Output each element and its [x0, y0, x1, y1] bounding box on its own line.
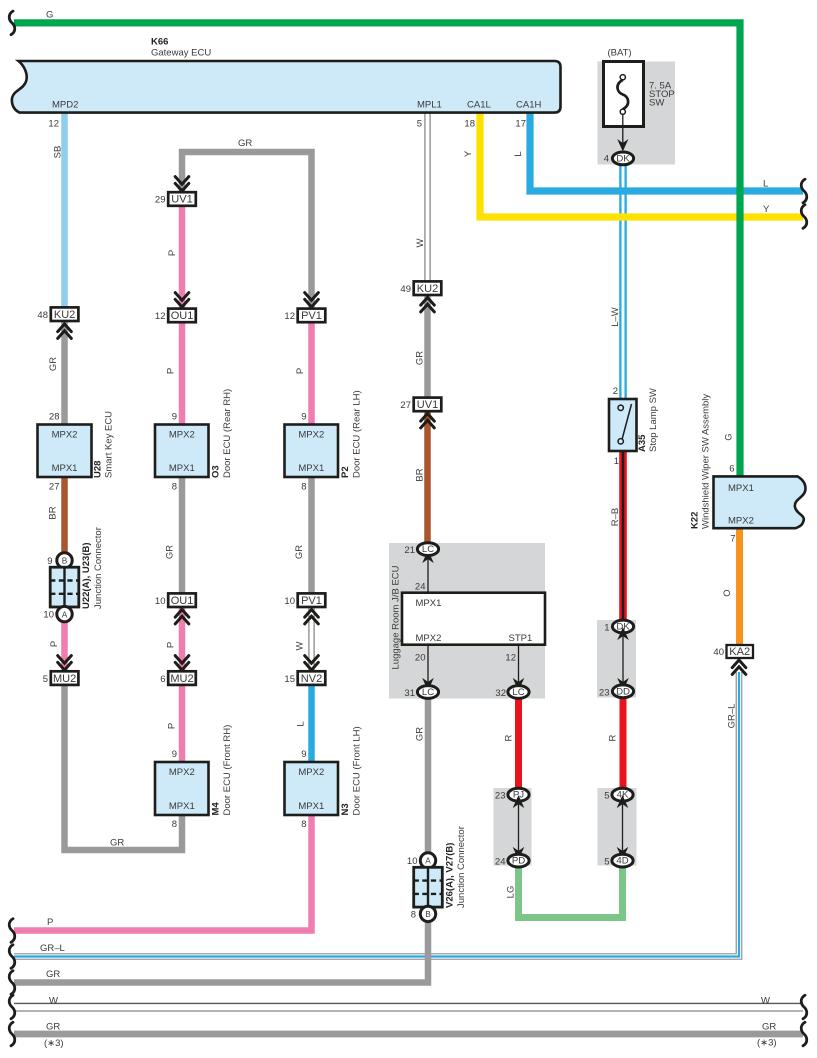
wire W PV1 to NV2	[309, 606, 314, 672]
wire GR LC 31 to junction V26 A	[425, 698, 432, 856]
svg-text:MPX1: MPX1	[416, 598, 442, 609]
door ECU rear LH P2	[285, 425, 339, 478]
svg-text:OU1: OU1	[171, 310, 194, 322]
connector oval LC 32	[508, 686, 529, 699]
svg-text:GR: GR	[165, 545, 176, 559]
svg-text:9: 9	[301, 749, 306, 760]
break squiggle GR bottom2 left	[9, 1022, 15, 1046]
svg-text:GR: GR	[238, 138, 252, 149]
connector oval 4D 5	[612, 854, 633, 867]
svg-text:7: 7	[730, 534, 735, 545]
connector box KU2 49	[414, 281, 442, 295]
svg-text:U22(A), U23(B): U22(A), U23(B)	[81, 542, 92, 609]
svg-text:4D: 4D	[616, 856, 628, 867]
wire W bottom bus	[14, 1003, 803, 1011]
svg-text:UV1: UV1	[171, 194, 192, 206]
svg-text:BR: BR	[48, 506, 59, 519]
svg-text:L: L	[296, 721, 307, 726]
svg-text:CA1L: CA1L	[467, 100, 491, 111]
arrow down 4D	[617, 847, 629, 860]
svg-text:10: 10	[155, 596, 166, 607]
svg-text:(BAT): (BAT)	[608, 48, 632, 59]
arrow down DD	[617, 678, 629, 691]
svg-text:Door ECU (Rear RH): Door ECU (Rear RH)	[222, 389, 233, 478]
svg-text:GR: GR	[48, 357, 59, 371]
svg-text:W: W	[761, 996, 770, 1007]
break squiggle L right	[801, 179, 807, 203]
arrow down PD	[513, 847, 525, 860]
connector oval DK 1	[612, 620, 633, 633]
windshield wiper SW assembly K22	[714, 476, 806, 528]
chevrons above PV1 12	[305, 293, 319, 307]
svg-text:21: 21	[404, 545, 415, 556]
svg-text:23: 23	[599, 687, 610, 698]
DK/DD connector shading	[597, 620, 636, 698]
luggage room inner box	[402, 593, 545, 645]
svg-text:20: 20	[415, 653, 426, 664]
svg-text:MPX2: MPX2	[169, 767, 195, 778]
svg-text:MPX2: MPX2	[52, 430, 78, 441]
door ECU front LH N3	[285, 762, 339, 815]
svg-text:MPX1: MPX1	[169, 463, 195, 474]
svg-text:Luggage Room J/B ECU: Luggage Room J/B ECU	[391, 565, 402, 669]
wire GR junction V26 B to bottom bus	[14, 918, 428, 983]
arrow up DK	[617, 627, 629, 640]
svg-text:DK: DK	[616, 153, 630, 164]
chevrons above MU2 5	[58, 656, 72, 670]
wire LC21 to MPX1 pin 24	[427, 556, 429, 592]
svg-text:W: W	[415, 238, 426, 247]
svg-text:MPD2: MPD2	[52, 100, 78, 111]
chevrons below OU1 10	[175, 610, 189, 624]
svg-text:MPX2: MPX2	[298, 430, 324, 441]
svg-text:(∗3): (∗3)	[44, 1038, 64, 1049]
svg-text:48: 48	[37, 310, 48, 321]
svg-text:R: R	[608, 734, 619, 741]
svg-text:Junction Connector: Junction Connector	[456, 826, 467, 908]
arrow up PJ	[513, 795, 525, 808]
wire P UV1 to OU1	[179, 205, 186, 425]
svg-text:GR: GR	[294, 545, 305, 559]
wire L NV2 to N3 pin 9	[308, 683, 315, 763]
svg-text:A: A	[62, 609, 68, 619]
svg-text:9: 9	[47, 556, 52, 567]
svg-text:18: 18	[464, 119, 475, 130]
chevrons above OU1 12	[175, 293, 189, 307]
svg-text:32: 32	[495, 688, 506, 699]
svg-text:MU2: MU2	[53, 673, 76, 685]
svg-text:Y: Y	[463, 150, 474, 157]
svg-text:SB: SB	[53, 146, 64, 159]
svg-text:8: 8	[172, 819, 177, 830]
svg-text:1: 1	[604, 623, 609, 634]
svg-text:L: L	[513, 151, 524, 156]
svg-text:GR: GR	[762, 1022, 776, 1033]
chevrons below KA2	[732, 660, 746, 674]
svg-text:5: 5	[417, 119, 422, 130]
connector oval PD 24	[508, 854, 529, 867]
connector box PV1 10	[298, 593, 326, 607]
arrow down to LC31	[422, 678, 434, 691]
break squiggle W bottom right	[801, 995, 807, 1019]
svg-text:(∗3): (∗3)	[757, 1038, 777, 1049]
svg-text:MPX1: MPX1	[298, 463, 324, 474]
svg-text:NV2: NV2	[301, 673, 322, 685]
svg-text:L: L	[763, 179, 768, 190]
wire GR P2 pin 8 to PV1	[308, 476, 315, 594]
svg-text:27: 27	[400, 400, 411, 411]
wire O K22 pin 7 to KA2	[736, 527, 743, 646]
connector box NV2 15	[298, 671, 326, 685]
svg-text:MPX1: MPX1	[728, 483, 754, 494]
svg-text:GR–L: GR–L	[40, 943, 65, 954]
svg-text:17: 17	[515, 119, 526, 130]
wire GR KU2 to U28 pin 28	[61, 320, 68, 425]
svg-text:24: 24	[495, 857, 506, 868]
break squiggle GR bottom	[9, 971, 15, 995]
svg-text:KU2: KU2	[417, 283, 438, 295]
svg-text:15: 15	[284, 674, 295, 685]
svg-text:U28: U28	[93, 461, 104, 478]
connector box OU1 10	[168, 593, 196, 607]
chevrons below KU2 49	[421, 298, 435, 312]
svg-text:P: P	[49, 641, 60, 647]
svg-text:GR: GR	[110, 838, 124, 849]
svg-text:12: 12	[155, 311, 166, 322]
wire SB from MPD2 pin 12	[61, 112, 68, 308]
gateway ECU K66 box	[12, 61, 561, 113]
svg-text:LC: LC	[422, 544, 434, 555]
svg-text:G: G	[724, 433, 735, 440]
svg-text:P: P	[295, 368, 306, 374]
svg-text:8: 8	[301, 482, 306, 493]
svg-text:PD: PD	[512, 856, 525, 867]
svg-text:8: 8	[301, 819, 306, 830]
svg-text:GR–L: GR–L	[727, 704, 738, 729]
svg-text:6: 6	[729, 464, 734, 475]
svg-text:P: P	[166, 642, 177, 648]
fuse 7.5A STOP SW	[604, 62, 644, 146]
door ECU rear RH O3	[155, 425, 209, 478]
svg-text:Door ECU (Front RH): Door ECU (Front RH)	[222, 725, 233, 816]
svg-text:SW: SW	[649, 98, 664, 109]
wire GR-L bottom bus to KA2	[14, 672, 739, 957]
svg-text:MPX2: MPX2	[169, 430, 195, 441]
connector box KA2	[727, 645, 754, 658]
svg-text:W: W	[49, 996, 58, 1007]
svg-text:GR: GR	[46, 969, 60, 980]
wire L from CA1H pin 17	[530, 112, 803, 191]
wire GR bottom bus	[14, 1031, 803, 1038]
break squiggle G left	[9, 11, 15, 35]
svg-text:G: G	[46, 10, 53, 21]
connector oval 4K 5	[612, 788, 633, 801]
svg-text:K22: K22	[690, 512, 701, 529]
svg-text:27: 27	[49, 482, 60, 493]
svg-text:W: W	[295, 641, 306, 650]
connector oval LC 21	[417, 543, 438, 556]
svg-text:N3: N3	[340, 803, 351, 815]
svg-text:LG: LG	[506, 886, 517, 899]
wire BR UV1 to LC 21	[424, 410, 431, 545]
svg-text:5: 5	[43, 674, 48, 685]
svg-text:P: P	[167, 250, 178, 256]
wire GR MU2 down to M4 pin 8	[65, 683, 183, 850]
svg-text:9: 9	[172, 412, 177, 423]
svg-text:M4: M4	[211, 802, 222, 816]
wire 4K to 4D	[622, 802, 624, 853]
wire P OU1 to MU2 to M4 pin 9	[179, 606, 186, 763]
PJ/PD connector shading	[494, 788, 532, 866]
svg-text:A: A	[425, 856, 431, 866]
wire GR top loop to UV1 and PV1	[182, 152, 312, 308]
svg-text:8: 8	[411, 910, 416, 921]
svg-text:Windshield Wiper SW Assembly: Windshield Wiper SW Assembly	[701, 394, 712, 529]
connector box OU1 12	[168, 309, 196, 323]
chevrons above NV2 15	[305, 656, 319, 670]
svg-text:Door ECU (Front LH): Door ECU (Front LH)	[352, 726, 363, 815]
svg-text:12: 12	[48, 119, 59, 130]
svg-text:Gateway ECU: Gateway ECU	[151, 48, 211, 59]
connector box PV1 12	[298, 309, 326, 323]
svg-text:10: 10	[407, 856, 418, 867]
svg-text:MPX2: MPX2	[298, 767, 324, 778]
fuse block shading	[598, 62, 676, 165]
svg-text:29: 29	[155, 195, 166, 206]
svg-text:BR: BR	[415, 468, 426, 481]
chevrons below KU2 48	[58, 324, 72, 338]
connector box UV1 27	[414, 398, 442, 412]
svg-text:MPX1: MPX1	[52, 463, 78, 474]
svg-text:GR: GR	[415, 351, 426, 365]
svg-text:Junction Connector: Junction Connector	[93, 527, 104, 609]
arrow up to LC21	[422, 550, 434, 563]
svg-text:GR: GR	[46, 1022, 60, 1033]
wire Y from CA1L pin 18	[480, 112, 803, 217]
4K/4D connector shading	[598, 788, 637, 866]
svg-text:Door ECU (Rear LH): Door ECU (Rear LH)	[352, 390, 363, 478]
svg-text:24: 24	[415, 582, 426, 593]
svg-text:CA1H: CA1H	[516, 100, 541, 111]
svg-text:LC: LC	[422, 687, 434, 698]
svg-text:B: B	[425, 909, 431, 919]
wire R LC 32 to PJ	[515, 697, 522, 790]
connector oval DD 23	[612, 685, 633, 698]
svg-text:P: P	[166, 368, 177, 374]
svg-text:P: P	[167, 723, 178, 729]
svg-text:P2: P2	[340, 466, 351, 478]
svg-text:6: 6	[160, 674, 165, 685]
svg-text:R–B: R–B	[610, 508, 621, 526]
wire PJ to PD	[518, 802, 520, 853]
svg-text:MU2: MU2	[170, 673, 193, 685]
svg-text:Y: Y	[763, 204, 770, 215]
svg-text:PV1: PV1	[301, 310, 322, 322]
svg-text:5: 5	[604, 791, 609, 802]
wire BR U28 pin 27 to junction B	[61, 476, 68, 554]
svg-text:28: 28	[49, 412, 60, 423]
wire GR O3 pin 8 to OU1	[179, 476, 186, 594]
svg-text:40: 40	[713, 647, 724, 658]
connector oval PJ 23	[508, 788, 529, 801]
wire MPX2 pin 20 to LC31	[427, 645, 429, 685]
svg-text:P: P	[47, 917, 53, 928]
svg-text:B: B	[62, 556, 68, 566]
wire L-W fuse DK to A35 pin 2	[619, 164, 627, 400]
junction connector U22(A) U23(B)	[50, 553, 79, 622]
arrow up 4K	[617, 795, 629, 808]
connector box KU2 48	[51, 307, 79, 321]
svg-text:PV1: PV1	[301, 595, 322, 607]
svg-text:GR: GR	[415, 727, 426, 741]
break squiggle P bottom	[9, 919, 15, 943]
connector oval LC 31	[417, 686, 438, 699]
svg-text:8: 8	[172, 482, 177, 493]
svg-text:1: 1	[614, 456, 619, 467]
svg-text:12: 12	[284, 311, 295, 322]
svg-text:4: 4	[604, 154, 609, 165]
svg-text:MPX1: MPX1	[298, 801, 324, 812]
arrow fuse to DK	[617, 139, 628, 152]
break squiggle Y right	[801, 205, 807, 229]
svg-text:31: 31	[404, 688, 415, 699]
svg-text:A35: A35	[637, 434, 648, 452]
svg-text:K66: K66	[151, 37, 168, 48]
arrow down to LC32	[513, 678, 525, 691]
svg-text:49: 49	[400, 284, 411, 295]
break squiggle W bottom left	[9, 995, 15, 1019]
wire LG PD to 4D	[519, 864, 623, 918]
svg-text:LC: LC	[512, 687, 524, 698]
svg-text:MPX2: MPX2	[728, 516, 754, 527]
connector oval DK 4	[612, 152, 633, 165]
wire DK to DD	[622, 634, 624, 684]
wire GR KU2 to UV1 middle	[424, 294, 431, 398]
connector box UV1 29	[168, 192, 196, 206]
wire P junction A to MU2	[61, 621, 68, 672]
wire P PV1 to P2	[308, 320, 315, 425]
svg-text:12: 12	[505, 653, 516, 664]
svg-text:V26(A), V27(B): V26(A), V27(B)	[445, 843, 456, 908]
junction connector V26(A) V27(B)	[414, 853, 443, 922]
svg-text:R: R	[504, 734, 515, 741]
svg-text:10: 10	[284, 596, 295, 607]
svg-text:O3: O3	[211, 465, 222, 478]
break squiggle GR-L bottom	[9, 945, 15, 969]
luggage room J/B ECU shading	[389, 543, 545, 699]
svg-text:UV1: UV1	[417, 399, 438, 411]
wire P N3 pin 8 to bottom bus	[14, 814, 312, 931]
chevrons below UV1 27	[421, 414, 435, 428]
svg-text:2: 2	[613, 386, 618, 397]
svg-text:KA2: KA2	[729, 646, 750, 658]
door ECU front RH M4	[155, 762, 209, 815]
svg-text:Stop Lamp SW: Stop Lamp SW	[648, 388, 659, 452]
svg-text:5: 5	[604, 857, 609, 868]
svg-text:MPL1: MPL1	[417, 100, 442, 111]
svg-text:MPX2: MPX2	[416, 633, 442, 644]
svg-text:DD: DD	[616, 686, 630, 697]
chevrons above UV1 29	[175, 177, 189, 191]
wire W from MPL1 pin 5	[425, 112, 430, 282]
svg-text:STP1: STP1	[509, 633, 533, 644]
connector box MU2 5	[51, 671, 79, 685]
svg-text:23: 23	[495, 791, 506, 802]
svg-text:O: O	[722, 589, 733, 596]
svg-text:KU2: KU2	[54, 309, 75, 321]
wire STP1 pin 12 to LC32	[518, 645, 520, 685]
svg-text:9: 9	[172, 749, 177, 760]
chevrons above MU2 6	[175, 656, 189, 670]
connector box MU2 6	[168, 671, 196, 685]
svg-text:OU1: OU1	[171, 595, 194, 607]
chevrons below PV1 10	[305, 610, 319, 624]
wire R DD to 4K	[620, 697, 627, 790]
svg-text:9: 9	[301, 412, 306, 423]
break squiggle GR bottom right	[801, 1022, 807, 1046]
svg-text:MPX1: MPX1	[169, 801, 195, 812]
stop lamp switch A35	[609, 399, 637, 451]
svg-text:10: 10	[43, 610, 54, 621]
wire G bus top	[14, 23, 740, 476]
svg-text:Smart Key ECU: Smart Key ECU	[104, 411, 115, 478]
smart key ECU U28	[38, 425, 92, 478]
wire R-B A35 pin 1 to DK	[619, 450, 627, 622]
svg-text:L–W: L–W	[610, 307, 621, 327]
